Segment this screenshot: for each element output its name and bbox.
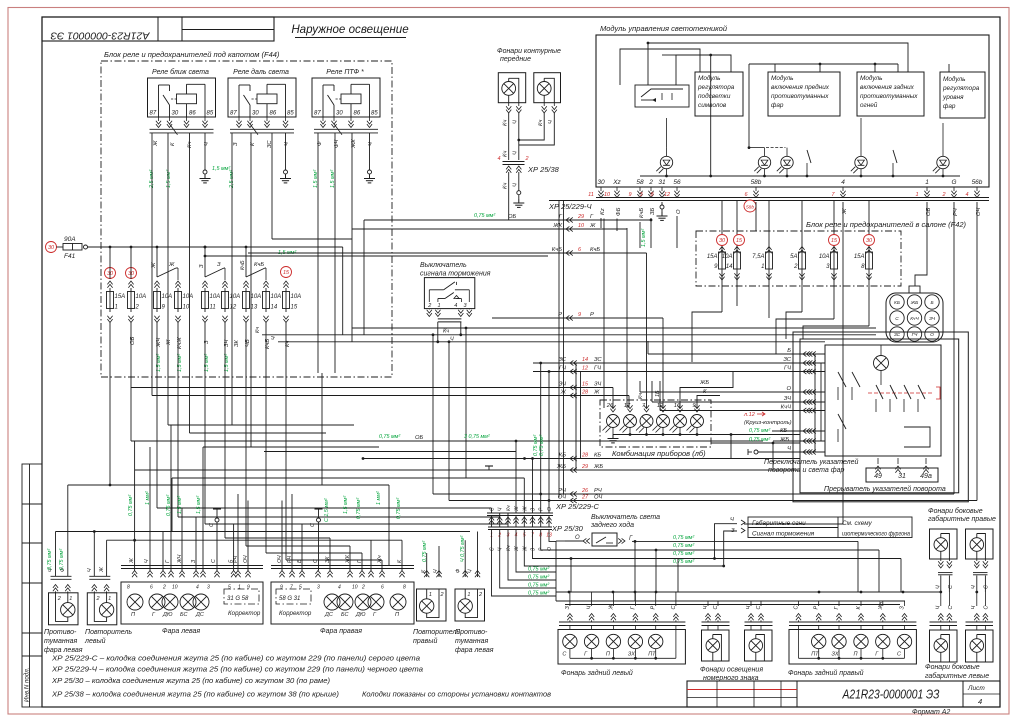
svg-text:0,75 мм²: 0,75 мм²: [528, 575, 549, 581]
svg-text:С: С: [713, 606, 719, 610]
svg-text:10А: 10А: [271, 294, 282, 300]
cruise wires from cluster: [613, 434, 800, 436]
svg-text:ЗЧ: ЗЧ: [784, 396, 791, 402]
wire row Р/9: [492, 317, 663, 319]
bottom title block: [687, 681, 1000, 707]
distribution rows left: [168, 424, 354, 426]
svg-text:86: 86: [354, 111, 361, 117]
module lamp wiring: [666, 148, 668, 157]
turn row КБ: [772, 430, 825, 432]
svg-text:10: 10: [352, 585, 358, 591]
relay K3 Реле ПТФ: [312, 78, 380, 117]
fog/repeater pin arrows: [53, 585, 58, 592]
svg-text:левый: левый: [84, 637, 106, 645]
svg-text:КчБ: КчБ: [254, 262, 264, 268]
svg-text:ЖБ: ЖБ: [910, 300, 919, 306]
svg-text:Ж: Ж: [168, 262, 175, 268]
svg-text:З: З: [531, 508, 537, 511]
wire row ЗС/14: [533, 362, 825, 364]
svg-text:Ч: Ч: [513, 120, 519, 124]
fuse F13 10А: [243, 292, 250, 309]
headlight right assembly: [271, 582, 414, 624]
relay pin bus: [314, 128, 378, 130]
svg-text:С: С: [984, 585, 990, 589]
svg-text:86: 86: [189, 111, 196, 117]
svg-text:1,5 мм²: 1,5 мм²: [196, 496, 202, 514]
F42 fuse 10А/3: [831, 252, 838, 269]
svg-text:0,75 мм²: 0,75 мм²: [749, 437, 770, 443]
relay K1 Реле ближ света: [148, 78, 216, 117]
svg-text:Б: Б: [787, 348, 791, 354]
vertical bundle between rows: [558, 201, 560, 498]
module pin stub wires: [600, 187, 602, 192]
svg-text:Наружное освещение: Наружное освещение: [291, 23, 409, 36]
svg-text:5: 5: [299, 585, 302, 591]
svg-text:огней: огней: [860, 101, 878, 109]
svg-text:С: С: [948, 585, 954, 589]
svg-text:12: 12: [664, 192, 670, 198]
svg-text:Ч: Ч: [787, 446, 791, 452]
svg-text:З: З: [731, 528, 735, 534]
svg-text:туманная: туманная: [455, 638, 488, 645]
svg-text:Ч: Ч: [513, 183, 519, 187]
connector lines over bottom side markers: [930, 621, 958, 623]
wire row ОЧ/27: [449, 500, 977, 502]
svg-text:8: 8: [127, 585, 130, 591]
rows to rear clusters: [556, 549, 879, 551]
svg-text:85: 85: [371, 111, 378, 117]
svg-text:1: 1: [429, 592, 432, 598]
svg-text:Кч: Кч: [506, 545, 512, 551]
turn switch lamp: [874, 356, 889, 371]
svg-text:Ч: Ч: [587, 606, 593, 610]
svg-text:5А: 5А: [790, 254, 797, 260]
brake connector lines: [438, 318, 462, 320]
svg-text:2: 2: [162, 585, 166, 591]
svg-text:Р: Р: [590, 312, 594, 318]
svg-text:30: 30: [252, 111, 259, 117]
svg-text:Ч: Ч: [468, 569, 474, 573]
svg-text:10: 10: [172, 585, 178, 591]
svg-text:ДС: ДС: [195, 612, 204, 618]
svg-text:КчБ: КчБ: [639, 208, 645, 218]
turn row Б: [648, 353, 825, 355]
svg-text:ЖБ: ЖБ: [699, 380, 709, 386]
svg-text:87: 87: [314, 111, 321, 117]
turn switch lamp wires: [880, 371, 882, 385]
wire row КБ/28: [363, 458, 800, 460]
svg-text:(Круиз-контроль): (Круиз-контроль): [744, 420, 792, 426]
svg-text:Модуль: Модуль: [771, 74, 793, 82]
module internal switch contacts: [807, 150, 811, 163]
round 9-pin connector: [886, 293, 943, 342]
svg-text:0,75 мм²: 0,75 мм²: [474, 213, 495, 219]
turn box inner verticals: [814, 354, 816, 452]
ground under front markers: [513, 199, 524, 207]
relay wire drops: [151, 133, 153, 396]
svg-text:Блок реле и предохранителей по: Блок реле и предохранителей под капотом …: [104, 50, 280, 59]
svg-text:ДЮ: ДЮ: [162, 612, 173, 618]
svg-text:4: 4: [978, 697, 982, 706]
svg-text:3 0,75 мм²: 3 0,75 мм²: [464, 434, 490, 440]
svg-text:30: 30: [107, 271, 114, 277]
turn rows ЗС ГЧ second arrows: [803, 360, 810, 365]
svg-text:ЗХ: ЗХ: [628, 652, 635, 658]
svg-text:ЗС: ЗС: [894, 332, 901, 338]
svg-text:30: 30: [48, 245, 55, 251]
wire row РЧ/26: [433, 493, 954, 495]
relay K2 Реле даль света: [228, 78, 296, 117]
module indicator lamp 2: [758, 156, 770, 168]
svg-text:2: 2: [427, 303, 431, 309]
side marker left lamp bottom 2: [966, 630, 994, 662]
svg-text:31: 31: [898, 473, 906, 480]
svg-text:Модуль управления светотехнико: Модуль управления светотехникой: [600, 24, 728, 33]
F42 fuse 7,5А/1: [766, 252, 773, 269]
svg-text:С: С: [562, 652, 566, 658]
svg-text:Ж: Ж: [522, 506, 528, 512]
wire row Ж/28: [152, 395, 629, 397]
front marker pin arrows: [508, 103, 510, 106]
svg-text:15: 15: [582, 382, 589, 388]
svg-text:2: 2: [941, 192, 945, 198]
turn row ЖБ: [773, 440, 825, 442]
svg-text:Ч: Ч: [368, 142, 374, 146]
svg-text:С: С: [948, 606, 954, 610]
headlight switch icon: [635, 85, 689, 107]
front marker lamp left: [498, 73, 525, 103]
svg-text:Р: Р: [814, 606, 820, 610]
side marker mini connectors: [938, 572, 953, 574]
svg-text:Кч: Кч: [443, 329, 449, 335]
svg-text:О: О: [930, 332, 934, 338]
svg-text:РЧ: РЧ: [594, 488, 602, 494]
svg-text:15: 15: [831, 238, 838, 244]
C connector fanout to rear feeds: [492, 530, 557, 597]
svg-text:ЗС: ЗС: [558, 357, 566, 363]
right headlight lamps: [324, 594, 340, 610]
svg-text:Ф: Ф: [456, 569, 462, 573]
svg-text:10А: 10А: [230, 294, 241, 300]
svg-text:Kz: Kz: [600, 208, 606, 215]
fog lamp left box: [49, 593, 79, 625]
svg-text:1: 1: [915, 192, 918, 198]
svg-text:30: 30: [336, 111, 343, 117]
svg-text:12: 12: [230, 305, 237, 311]
svg-text:Повторитель: Повторитель: [85, 629, 132, 636]
svg-text:передние: передние: [500, 55, 531, 63]
svg-text:Выключатель света: Выключатель света: [591, 514, 660, 521]
left headlight lamps: [127, 594, 143, 610]
F42 fuse 10А/14: [734, 252, 741, 269]
svg-text:58b: 58b: [751, 179, 762, 186]
svg-text:включения предних: включения предних: [771, 83, 830, 91]
svg-text:Корректор: Корректор: [279, 610, 312, 617]
svg-text:30: 30: [719, 238, 726, 244]
svg-text:15: 15: [291, 305, 298, 311]
rear lamp cluster box Фонарь задний правый: [789, 630, 916, 665]
svg-text:0,75 мм²: 0,75 мм²: [673, 559, 694, 565]
red feed circles over fuses: [105, 268, 116, 279]
svg-text:Ч: Ч: [513, 151, 519, 155]
svg-text:КчЧ: КчЧ: [781, 405, 791, 411]
svg-text:1,5 мм²: 1,5 мм²: [343, 496, 349, 514]
svg-text:Комбинация приборов (лб): Комбинация приборов (лб): [612, 449, 706, 458]
module bottom rail: [640, 175, 960, 177]
svg-text:1,5 мм²: 1,5 мм²: [641, 229, 647, 247]
svg-text:Xz: Xz: [612, 179, 621, 186]
svg-text:0,75 мм²: 0,75 мм²: [528, 583, 549, 589]
svg-text:С: С: [756, 606, 762, 610]
svg-text:Ч: Ч: [730, 517, 734, 523]
svg-text:6: 6: [150, 585, 153, 591]
svg-text:28: 28: [581, 453, 589, 459]
svg-text:Ж: Ж: [514, 546, 520, 552]
svg-text:О: О: [676, 209, 682, 214]
svg-text:87: 87: [230, 111, 237, 117]
fuse F2 10А: [128, 292, 135, 309]
svg-text:Переключатель указателей: Переключатель указателей: [764, 458, 858, 466]
connector XP 25/38: [503, 161, 525, 163]
svg-text:Ж: Ж: [514, 506, 520, 512]
verticals from module pins down: [616, 219, 618, 232]
svg-text:Габаритные огни: Габаритные огни: [752, 519, 806, 527]
svg-text:11: 11: [588, 192, 594, 198]
svg-text:ФБ: ФБ: [616, 207, 622, 216]
relay pin bus: [150, 128, 214, 130]
svg-text:7,5А: 7,5А: [752, 254, 764, 260]
svg-text:11: 11: [210, 305, 216, 311]
svg-text:1: 1: [467, 592, 470, 598]
side marker right lamp 1: [930, 529, 958, 559]
svg-text:9: 9: [280, 585, 283, 591]
svg-text:регулятора: регулятора: [697, 84, 735, 91]
right corrector: [276, 589, 311, 604]
wire row КчБ/6: [248, 252, 647, 254]
svg-text:0,75 мм²: 0,75 мм²: [356, 498, 362, 519]
svg-text:ХР 25/229-Ч: ХР 25/229-Ч: [548, 202, 593, 211]
svg-text:Инв.N подл.: Инв.N подл.: [24, 668, 31, 702]
svg-text:14: 14: [726, 264, 733, 270]
svg-text:ХР 25/229-С: ХР 25/229-С: [555, 502, 600, 511]
svg-text:ХР 25/229-Ч – колодка соедин: ХР 25/229-Ч – колодка соединения жгута 2…: [51, 665, 423, 674]
svg-text:87: 87: [150, 111, 157, 117]
svg-text:С: С: [895, 316, 899, 322]
svg-text:О: О: [547, 507, 553, 511]
svg-text:Ч: Ч: [284, 142, 290, 146]
svg-text:подсветки: подсветки: [698, 92, 731, 100]
svg-text:Фонари боковые: Фонари боковые: [925, 663, 980, 671]
svg-text:Модуль: Модуль: [860, 74, 882, 82]
svg-text:4: 4: [841, 179, 845, 186]
XP25/229-C connector: [487, 512, 553, 514]
fuse block F42 dash-dot box: [696, 231, 901, 286]
fuse F12 10А: [222, 292, 229, 309]
svg-text:ЖБ: ЖБ: [779, 437, 789, 443]
sheet cell: [962, 681, 964, 707]
svg-text:13: 13: [251, 305, 258, 311]
connector lines over rear cluster right: [789, 621, 916, 623]
svg-text:С: С: [211, 559, 217, 563]
svg-text:С: С: [671, 606, 677, 610]
svg-text:2: 2: [361, 585, 365, 591]
battery node 30 circle: [46, 242, 57, 253]
svg-text:30: 30: [597, 179, 605, 186]
svg-text:ДЮ: ДЮ: [355, 612, 366, 618]
svg-text:0,75 мм²: 0,75 мм²: [422, 541, 428, 562]
svg-text:туманная: туманная: [44, 638, 77, 645]
svg-text:А21R23-0000001 ЭЗ: А21R23-0000001 ЭЗ: [50, 30, 151, 42]
cluster ground: [608, 435, 619, 443]
svg-text:Ч: Ч: [450, 337, 454, 343]
svg-text:Ч: Ч: [433, 569, 439, 573]
svg-text:Ч: Ч: [936, 606, 942, 610]
svg-text:С 1,5 мм²: С 1,5 мм²: [324, 498, 330, 522]
fuse F9 10А: [154, 292, 161, 309]
svg-text:Ч 0,75 мм²: Ч 0,75 мм²: [460, 535, 466, 562]
svg-text:14: 14: [582, 357, 588, 363]
svg-text:БС: БС: [341, 612, 348, 618]
svg-text:Сигнал торможения: Сигнал торможения: [752, 531, 815, 538]
right margin stub: [773, 469, 800, 471]
svg-text:Реле ближ света: Реле ближ света: [152, 68, 209, 76]
svg-text:ХР 25/30: ХР 25/30: [551, 524, 584, 533]
turn switch pins out: [877, 458, 879, 464]
svg-text:G: G: [951, 179, 956, 186]
svg-text:П: П: [854, 652, 858, 658]
svg-text:10А: 10А: [136, 294, 147, 300]
svg-text:29: 29: [581, 464, 588, 470]
cluster bottom rail: [613, 434, 711, 436]
svg-text:10: 10: [578, 223, 585, 229]
fog lamp left wires: [55, 532, 57, 577]
svg-text:3: 3: [207, 585, 210, 591]
svg-text:10А: 10А: [819, 254, 830, 260]
svg-text:КБ: КБ: [594, 453, 601, 459]
wire row ЗЧ/15: [131, 387, 613, 389]
svg-text:правый: правый: [413, 637, 437, 645]
svg-text:9: 9: [247, 585, 250, 591]
svg-text:28: 28: [581, 390, 589, 396]
svg-text:0,75 мм²: 0,75 мм²: [749, 428, 770, 434]
svg-text:58b: 58b: [746, 204, 754, 210]
svg-text:КБ: КБ: [894, 300, 900, 306]
fuse F15 10А: [283, 292, 290, 309]
svg-text:фар: фар: [943, 103, 956, 110]
crossover diagonals above fuse pairs: [156, 247, 158, 277]
svg-text:ГЧ: ГЧ: [594, 366, 601, 372]
feed wire from F41: [88, 246, 343, 248]
svg-text:27: 27: [581, 495, 589, 501]
svg-text:86: 86: [270, 111, 277, 117]
svg-text:Ж: Ж: [522, 546, 528, 552]
turn switch gang contacts: [876, 385, 883, 399]
svg-text:10: 10: [183, 305, 190, 311]
svg-text:1: 1: [69, 596, 72, 602]
svg-text:Б: Б: [930, 300, 933, 306]
top-left document stamp: [42, 17, 274, 41]
inner bracket: [904, 427, 930, 447]
svg-text:10А: 10А: [183, 294, 194, 300]
svg-text:Корректор: Корректор: [228, 610, 261, 617]
svg-text:ЗК: ЗК: [234, 339, 240, 347]
svg-text:Ж: Ж: [593, 390, 600, 396]
bus junction dots: [568, 591, 571, 594]
svg-text:Модуль: Модуль: [943, 75, 965, 83]
svg-text:ЗС: ЗС: [594, 357, 602, 363]
svg-text:ЗЧ: ЗЧ: [929, 316, 936, 322]
svg-text:1: 1: [108, 596, 111, 602]
side marker wires to bus: [940, 576, 942, 593]
center vertical bundle to XP25/229-C: [491, 508, 493, 513]
svg-text:ГЧ: ГЧ: [784, 366, 791, 372]
wires fuse tops to feed: [109, 247, 111, 279]
svg-text:фара левая: фара левая: [455, 647, 494, 654]
svg-text:противотуманных: противотуманных: [771, 93, 829, 100]
svg-text:56b: 56b: [972, 179, 983, 186]
svg-text:0,75 мм²: 0,75 мм²: [166, 495, 172, 516]
svg-text:14: 14: [271, 305, 278, 311]
svg-text:ОБ: ОБ: [508, 214, 517, 220]
svg-text:ГЧ: ГЧ: [912, 332, 919, 338]
module M2 включения предних птф: [768, 72, 840, 116]
module indicator lamp 3: [781, 156, 793, 168]
svg-text:заднего хода: заднего хода: [590, 521, 634, 529]
wire row ЖБ/29: [135, 469, 800, 471]
light control module outer box: [596, 35, 989, 187]
svg-text:габаритные левые: габаритные левые: [925, 672, 989, 680]
svg-text:Лист: Лист: [967, 685, 985, 692]
svg-text:12: 12: [582, 366, 588, 372]
red circled 58b: [744, 200, 756, 212]
svg-text:0,75 мм²: 0,75 мм²: [528, 591, 549, 597]
svg-text:9: 9: [578, 312, 581, 318]
svg-text:ЗС: ЗС: [783, 357, 791, 363]
svg-text:ДС: ДС: [324, 612, 333, 618]
cluster feed wires from right: [680, 372, 733, 409]
side marker right arrows: [940, 559, 942, 561]
svg-text:Ч: Ч: [271, 336, 277, 340]
fuse F1 15А: [107, 292, 114, 309]
svg-text:8: 8: [403, 585, 406, 591]
license plate lamp 2: [745, 630, 773, 661]
arrows above headlights: [132, 571, 137, 578]
svg-text:90А: 90А: [64, 236, 76, 243]
left side stamp column: [22, 464, 42, 707]
svg-text:10А: 10А: [210, 294, 221, 300]
relay pin bus: [230, 128, 294, 130]
svg-text:З: З: [217, 262, 221, 268]
svg-text:30: 30: [172, 111, 179, 117]
front marker wires: [508, 113, 510, 160]
svg-text:КчБ: КчБ: [240, 260, 246, 270]
svg-text:Кч: Кч: [503, 120, 509, 126]
svg-text:10А: 10А: [251, 294, 262, 300]
fog lamp right box: [455, 589, 485, 621]
svg-text:Р: Р: [651, 606, 657, 610]
turn switch outer box 2: [793, 332, 968, 502]
svg-text:2: 2: [525, 156, 529, 162]
svg-text:ПТ: ПТ: [811, 652, 819, 658]
module M4 регулятора уровня фар: [940, 72, 985, 118]
turn row КчЧ: [660, 410, 825, 412]
svg-text:4: 4: [454, 303, 457, 309]
instrument cluster dash-dot box: [600, 400, 711, 447]
svg-text:П: П: [606, 652, 610, 658]
svg-text:3: 3: [317, 585, 320, 591]
connector lines over rear cluster left: [559, 621, 685, 623]
fuse F14 10А: [263, 292, 270, 309]
